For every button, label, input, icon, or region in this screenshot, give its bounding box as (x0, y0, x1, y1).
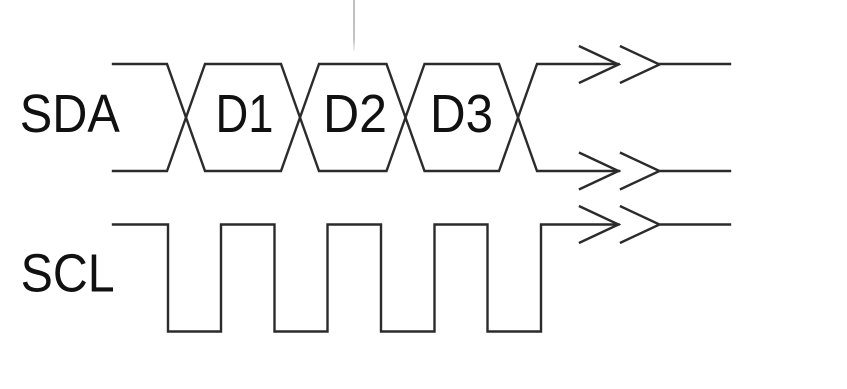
svg-text:SCL: SCL (21, 244, 115, 303)
chevron arrows row 2 (580, 153, 730, 189)
chevron arrows row 3 (580, 207, 730, 243)
wire SDA rail B (bottom-start zigzag) (113, 64, 619, 171)
cursor guide line (353, 0, 355, 52)
wire SCL clock (113, 225, 619, 332)
svg-text:D1: D1 (216, 85, 274, 144)
svg-text:D2: D2 (323, 85, 387, 144)
svg-text:D3: D3 (430, 85, 493, 144)
chevron arrows row 1 (580, 47, 730, 83)
wire SDA rail A (top-start zigzag) (113, 64, 619, 171)
svg-text:SDA: SDA (20, 85, 120, 144)
